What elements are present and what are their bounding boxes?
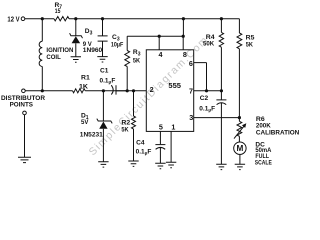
junction coil bottom (41, 89, 44, 92)
ground C3 (97, 57, 107, 62)
zener D3 (70, 33, 83, 38)
svg-text:5K: 5K (121, 127, 128, 134)
svg-text:IGNITION: IGNITION (46, 47, 73, 54)
junction D3/rail (74, 17, 77, 20)
wire points2 to ground (24, 115, 26, 158)
capacitor C4 (155, 144, 165, 146)
wire rail2 (9V to pins 4,8) (127, 19, 183, 50)
junction R2 top (132, 89, 135, 92)
capacitor C1 (111, 85, 113, 94)
wire coil bottom (41, 67, 43, 91)
junction R3 bottom (126, 89, 129, 92)
node distributor points terminal 1 (22, 89, 26, 93)
ground D3 (71, 57, 81, 62)
resistor R5 (238, 19, 240, 33)
ground C4 (155, 163, 165, 168)
ground D1 (98, 162, 108, 167)
ground meter (235, 164, 245, 169)
wire D3 top (75, 19, 77, 36)
svg-text:1N5231: 1N5231 (80, 131, 103, 138)
svg-text:3: 3 (189, 113, 193, 122)
svg-text:0.1µF: 0.1µF (136, 148, 152, 156)
watermark (87, 34, 211, 158)
svg-text:10µF: 10µF (111, 42, 123, 49)
ground pin1 (166, 162, 176, 167)
svg-text:5: 5 (159, 123, 163, 132)
node distributor points terminal 2 + label (1, 95, 45, 109)
resistor R1 (73, 89, 86, 93)
svg-text:2: 2 (150, 85, 154, 94)
resistor R7 (54, 17, 69, 21)
zener D1 (102, 91, 104, 121)
rheostat R6 (237, 121, 242, 136)
svg-text:8: 8 (183, 50, 187, 59)
capacitor C2 (216, 91, 226, 100)
svg-text:6: 6 (189, 59, 193, 68)
svg-text:CALIBRATION: CALIBRATION (256, 129, 300, 136)
svg-text:C2: C2 (200, 95, 209, 102)
svg-text:C4: C4 (136, 139, 145, 146)
ground distributor points (18, 157, 31, 162)
wire pin7 row (194, 90, 222, 92)
svg-text:R1: R1 (81, 74, 90, 81)
svg-text:0.1µF: 0.1µF (199, 105, 215, 113)
wire pin3 row (194, 117, 240, 119)
ground R2 (128, 161, 138, 166)
node 12V terminal (21, 17, 25, 21)
svg-text:C1: C1 (100, 68, 109, 75)
svg-text:5K: 5K (246, 42, 253, 49)
capacitor C3 (98, 19, 108, 57)
node 12V label (7, 16, 19, 23)
wire pin5 stub (159, 131, 161, 144)
svg-text:15: 15 (55, 8, 61, 15)
wire pin6 tie to pin7 (194, 63, 207, 91)
svg-text:1N960: 1N960 (83, 47, 103, 54)
junction D1 top (102, 89, 105, 92)
svg-text:0.1µF: 0.1µF (100, 77, 116, 85)
svg-text:5K: 5K (133, 57, 140, 64)
wire top rail (25, 18, 240, 20)
inductor ignition coil (39, 41, 42, 66)
svg-text:555: 555 (168, 81, 181, 90)
svg-text:3: 3 (90, 31, 93, 37)
svg-text:R2: R2 (121, 119, 130, 126)
wire points row (25, 90, 146, 92)
wire coil top (41, 19, 43, 42)
svg-text:M: M (237, 144, 244, 153)
op-amp/IC 555 box (146, 50, 193, 132)
junction C3/rail (101, 17, 104, 20)
svg-text:12 V: 12 V (7, 16, 19, 23)
svg-text:50K: 50K (203, 41, 214, 48)
meter M (234, 142, 246, 154)
svg-text:1K: 1K (79, 84, 88, 91)
svg-text:7: 7 (189, 86, 193, 95)
svg-text:SCALE: SCALE (255, 159, 273, 166)
svg-text:POINTS: POINTS (10, 102, 34, 109)
ground C2 (216, 164, 226, 169)
resistor R3 (126, 36, 128, 50)
svg-text:5V: 5V (81, 119, 89, 126)
junction coil/rail (41, 17, 44, 20)
svg-text:1: 1 (171, 123, 175, 132)
resistor R2 (133, 91, 135, 116)
svg-text:4: 4 (159, 50, 163, 59)
svg-text:COIL: COIL (46, 54, 60, 61)
wire pin1 stub (170, 131, 172, 162)
resistor R4 (220, 17, 223, 20)
